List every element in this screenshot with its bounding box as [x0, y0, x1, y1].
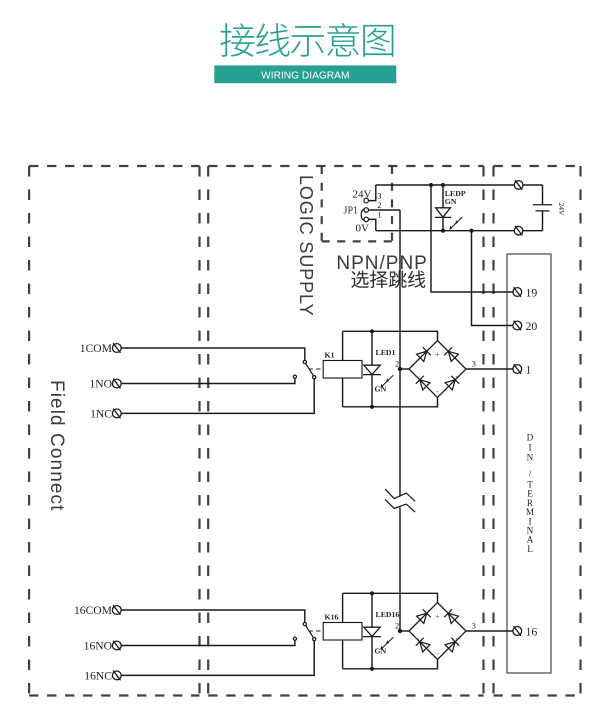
- bridge polarity marks: [415, 611, 460, 658]
- diode D1c (- to AC-left): [420, 380, 430, 390]
- bridge rectifier BR16: [409, 603, 466, 660]
- svg-text:GN: GN: [375, 385, 387, 394]
- svg-text:1: 1: [526, 362, 532, 376]
- node: select line junction ch16: [398, 629, 402, 633]
- svg-text:3: 3: [472, 358, 476, 368]
- wire: coil left rail: [342, 331, 344, 407]
- bridge polarity marks: [415, 349, 460, 396]
- svg-text:L: L: [527, 544, 533, 554]
- wire: top rail to bridge +: [343, 331, 438, 340]
- break symbol on select line: [385, 489, 415, 512]
- svg-text:D: D: [527, 432, 534, 442]
- terminal screw 1 (DIN): [513, 364, 522, 374]
- diode D16c (- to AC-left): [420, 642, 430, 652]
- svg-text:1NO: 1NO: [89, 377, 112, 390]
- mechanical link: switch to coil K16: [309, 630, 324, 632]
- terminal screw 1COM: [112, 343, 121, 353]
- svg-text:JP1: JP1: [344, 206, 358, 217]
- svg-text:K16: K16: [325, 613, 339, 622]
- wire: bridge DC out to terminal 16: [466, 630, 513, 632]
- svg-text:16COM: 16COM: [74, 604, 112, 617]
- svg-text:+: +: [435, 611, 440, 621]
- wire: 1COM to switch pivot: [121, 348, 305, 360]
- svg-text:~: ~: [455, 372, 460, 382]
- diode D16a (AC-left to +): [417, 613, 427, 623]
- wire: select line to bridge AC left: [400, 630, 409, 632]
- banner WIRING DIAGRAM: [214, 65, 396, 83]
- svg-text:1NC: 1NC: [90, 407, 112, 420]
- jumper JP1: shunt cap arc across pins 1-2: [361, 209, 363, 220]
- DIN terminal block outline: [507, 254, 551, 673]
- terminal screw 16NC: [112, 671, 121, 681]
- diode D1a (AC-left to +): [417, 351, 427, 361]
- svg-text:16NC: 16NC: [84, 669, 112, 682]
- svg-text:N: N: [527, 452, 534, 462]
- node: junction bottom rail / LED cathode: [370, 405, 374, 409]
- wire: 16NO to NO contact: [121, 640, 295, 645]
- svg-text:GN: GN: [375, 647, 387, 656]
- svg-text:3: 3: [377, 190, 381, 200]
- LED LEDP (green power LED): [435, 185, 462, 231]
- wire: 24V rail to DIN terminal 19: [431, 185, 513, 292]
- power source 24V (capacitor symbol): [533, 185, 552, 231]
- svg-text:16: 16: [526, 624, 538, 638]
- label: DIN / TERMINAL (vertical): [526, 432, 534, 554]
- wire: coil left rail: [342, 593, 344, 669]
- node: junction top rail / LED anode: [370, 329, 374, 333]
- svg-text:1: 1: [377, 209, 381, 219]
- wire: JP1 pin2 stub to select line: [369, 209, 401, 211]
- wire: JP1 pin1 to 0V bottom rail: [369, 219, 376, 230]
- svg-text:LED16: LED16: [376, 610, 400, 619]
- wire: 16NC to NC contact: [121, 641, 314, 676]
- svg-text:LED1: LED1: [376, 348, 396, 357]
- svg-text:~: ~: [455, 634, 460, 644]
- svg-text:19: 19: [526, 285, 538, 299]
- diode D16b (AC-right to +): [448, 613, 458, 623]
- wire: 24V top rail: [376, 184, 543, 186]
- diode D1d (- to AC-right): [445, 380, 455, 390]
- wire: bridge DC out to terminal 1: [466, 368, 513, 370]
- wire: 0V bottom rail: [376, 230, 543, 232]
- node: junction 24V rail / LEDP anode: [441, 183, 445, 187]
- enclosure: logic compartment (dashed): [208, 166, 483, 696]
- relay coil K1: [323, 361, 362, 379]
- svg-text:+: +: [435, 349, 440, 359]
- terminal screw 19: [513, 287, 522, 297]
- node: junction 24V rail / terminal-19 feed: [429, 183, 433, 187]
- wire: 1NO to NO contact: [121, 378, 295, 383]
- svg-text:20: 20: [526, 319, 538, 333]
- svg-text:Field Connect: Field Connect: [46, 380, 67, 512]
- terminal screw 20: [513, 321, 522, 331]
- svg-text:NPN/PNP: NPN/PNP: [336, 253, 427, 274]
- svg-text:-: -: [436, 648, 439, 658]
- svg-text:~: ~: [415, 372, 420, 382]
- wire: JP1 pin3 to 24V top rail: [369, 185, 376, 201]
- diode D1b (AC-right to +): [448, 351, 458, 361]
- svg-text:LOGIC SUPPLY: LOGIC SUPPLY: [296, 175, 316, 317]
- svg-text:0V: 0V: [356, 223, 370, 235]
- relay coil K16: [323, 623, 362, 641]
- node: select line junction ch1: [398, 367, 402, 371]
- switch SPDT contact set 1: [293, 360, 316, 378]
- terminal screw 1NO: [112, 379, 121, 389]
- wire: NPN/PNP select line (vertical, with break): [399, 210, 401, 631]
- svg-text:GN: GN: [445, 197, 457, 206]
- terminal screw 16 (DIN): [513, 626, 522, 636]
- svg-text:2: 2: [377, 200, 381, 210]
- wire: 1NC to NC contact: [121, 379, 314, 414]
- bridge rectifier BR1: [409, 341, 466, 398]
- mechanical link: switch to coil K1: [309, 368, 324, 370]
- wire: top rail to bridge +: [343, 593, 438, 602]
- svg-text:3: 3: [472, 620, 476, 630]
- jumper JP1: pin circles: [364, 198, 369, 221]
- wire: bottom rail to bridge -: [343, 398, 438, 407]
- svg-text:K1: K1: [325, 351, 335, 360]
- svg-text:2: 2: [395, 620, 399, 630]
- node: junction bottom rail / LED cathode: [370, 667, 374, 671]
- wire: select line to bridge AC left: [400, 368, 409, 370]
- LED LED16: [363, 593, 393, 669]
- wire: bottom rail to bridge -: [343, 660, 438, 669]
- wire: 0V rail to DIN terminal 20: [472, 231, 513, 326]
- svg-text:~: ~: [415, 634, 420, 644]
- svg-text:24V: 24V: [353, 189, 372, 201]
- node: junction 0V rail / terminal-20 feed: [469, 229, 473, 233]
- node: junction top rail / LED anode: [370, 591, 374, 595]
- svg-text:-: -: [436, 386, 439, 396]
- title 接线示意图: [220, 23, 393, 57]
- enclosure: DIN rail compartment (dashed): [494, 166, 581, 696]
- terminal screw 1NC: [112, 409, 121, 419]
- svg-text:2: 2: [395, 358, 399, 368]
- terminal screw 16NO: [112, 641, 121, 651]
- label: 选择跳线 (selection jumper): [351, 271, 425, 289]
- node: junction 0V rail / LEDP cathode: [441, 229, 445, 233]
- svg-text:16NO: 16NO: [84, 639, 112, 652]
- svg-text:/: /: [529, 469, 532, 479]
- terminal screw: 0V supply input: [514, 226, 523, 236]
- enclosure: JP1 jumper dashed box: [322, 166, 392, 241]
- svg-text:I: I: [528, 442, 531, 452]
- terminal screw 16COM: [112, 605, 121, 615]
- enclosure: Field Connect compartment (dashed): [29, 166, 199, 696]
- svg-text:24V: 24V: [557, 203, 566, 217]
- LED LED1: [363, 331, 393, 407]
- terminal screw: 24V supply input: [514, 180, 523, 190]
- switch SPDT contact set 16: [293, 622, 316, 640]
- svg-text:WIRING DIAGRAM: WIRING DIAGRAM: [261, 71, 349, 82]
- wire: 16COM to switch pivot: [121, 610, 305, 622]
- diode D16d (- to AC-right): [445, 642, 455, 652]
- svg-text:1COM: 1COM: [80, 342, 112, 355]
